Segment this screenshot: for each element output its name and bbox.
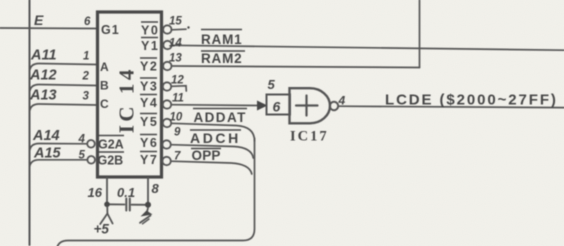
svg-text:RAM1: RAM1 <box>201 32 242 47</box>
svg-text:A14: A14 <box>32 128 60 144</box>
capacitor C wires <box>107 203 125 205</box>
svg-text:A13: A13 <box>29 88 57 104</box>
wire A11 <box>30 64 97 73</box>
svg-text:8: 8 <box>152 181 160 196</box>
svg-text:1: 1 <box>83 51 89 63</box>
wire pin 15 stub <box>172 28 186 31</box>
pin 12 output bubble <box>163 82 171 90</box>
pin number labels right side <box>169 16 190 163</box>
svg-text:15: 15 <box>169 16 182 28</box>
pin 10 output bubble <box>163 119 171 127</box>
svg-text:12: 12 <box>171 75 184 87</box>
wire bottom bus wrap-around <box>57 138 255 246</box>
svg-text:IC17: IC17 <box>290 129 329 145</box>
power +5 symbol <box>106 207 108 214</box>
svg-text:C: C <box>100 97 109 111</box>
svg-text:5: 5 <box>268 77 276 92</box>
svg-text:16: 16 <box>88 185 103 200</box>
svg-text:3: 3 <box>83 91 90 103</box>
svg-text:Y6: Y6 <box>140 136 158 150</box>
svg-text:ADDAT: ADDAT <box>194 110 247 125</box>
net labels on wires <box>190 30 247 164</box>
pin 7 output bubble <box>162 157 170 165</box>
svg-text:LCDE ($2000~27FF): LCDE ($2000~27FF) <box>385 92 558 109</box>
wire RAM1 to right edge <box>172 45 564 50</box>
gate input junction box <box>267 95 291 115</box>
plus symbol inside gate <box>296 104 318 106</box>
wire LCDE output to right edge <box>338 106 564 107</box>
svg-text:G2A: G2A <box>98 138 124 152</box>
svg-text:4: 4 <box>78 134 86 146</box>
svg-text:A: A <box>100 60 109 74</box>
svg-text:B: B <box>100 79 109 93</box>
svg-text:13: 13 <box>169 53 182 65</box>
svg-text:ADCH: ADCH <box>190 130 241 146</box>
svg-text:Y7: Y7 <box>140 153 158 167</box>
capacitor C plates <box>125 199 127 211</box>
wire A12 <box>30 85 97 94</box>
junction arrow at gate input <box>257 101 268 111</box>
svg-text:Y4: Y4 <box>140 96 158 110</box>
wire pin 12 stub <box>171 86 186 91</box>
IC14 interior labels <box>98 22 160 168</box>
svg-text:Y5: Y5 <box>140 115 158 129</box>
pin 11 output bubble <box>163 100 171 108</box>
svg-text:Y1: Y1 <box>141 39 159 53</box>
wire A13 <box>30 104 97 113</box>
wire pin 8 down <box>147 178 149 205</box>
svg-text:OPP: OPP <box>192 148 221 163</box>
svg-text:A11: A11 <box>30 48 57 64</box>
gate IC17 <box>257 77 564 145</box>
pin G2B input bubble <box>87 156 95 164</box>
gate U17 AND-shape body <box>290 88 331 123</box>
svg-text:11: 11 <box>172 93 184 105</box>
pin 14 output bubble <box>163 41 171 49</box>
pin 15 output bubble <box>163 25 171 33</box>
svg-text:A12: A12 <box>29 68 57 84</box>
wire OPP into bottom bus <box>171 161 252 174</box>
wire E to pin 6 <box>0 27 97 30</box>
svg-text:Y2: Y2 <box>140 60 158 74</box>
svg-text:6: 6 <box>84 16 91 28</box>
wire A15 <box>30 160 88 168</box>
wire pin 11 to gate <box>171 104 259 107</box>
svg-text:7: 7 <box>174 151 181 163</box>
svg-text:E: E <box>34 12 44 28</box>
wire RAM2 <box>172 66 420 68</box>
junction node at +5 <box>104 202 110 208</box>
svg-text:10: 10 <box>170 112 183 124</box>
pin G2A input bubble <box>87 140 95 148</box>
pin 13 output bubble <box>163 62 171 70</box>
svg-text:Y3: Y3 <box>140 80 158 94</box>
wire pin 16 down <box>106 178 108 205</box>
pin 9 output bubble <box>162 140 170 148</box>
wire ADDAT into bottom bus <box>171 123 254 141</box>
IC U14 decoder body <box>98 12 162 177</box>
svg-text:9: 9 <box>174 127 181 139</box>
wire RAM2 vertical to top edge <box>419 0 421 68</box>
svg-text:RAM2: RAM2 <box>201 51 242 66</box>
gate output bubble <box>330 102 338 110</box>
svg-text:2: 2 <box>82 71 90 83</box>
ground <box>147 208 148 212</box>
svg-text:IC 14: IC 14 <box>115 66 139 133</box>
power / decoupling at bottom of IC14 <box>88 178 160 237</box>
wire A14 <box>30 144 88 153</box>
svg-text:G2B: G2B <box>98 154 124 168</box>
wire left address bus vertical <box>29 0 31 245</box>
svg-text:5: 5 <box>79 150 86 162</box>
wire ADCH into bottom bus <box>171 145 253 158</box>
svg-text:6: 6 <box>273 99 281 115</box>
junction node at ground <box>145 202 151 208</box>
svg-text:G1: G1 <box>101 23 120 37</box>
svg-text:14: 14 <box>169 38 182 50</box>
svg-text:Y0: Y0 <box>141 24 159 38</box>
svg-text:+5: +5 <box>94 222 110 237</box>
